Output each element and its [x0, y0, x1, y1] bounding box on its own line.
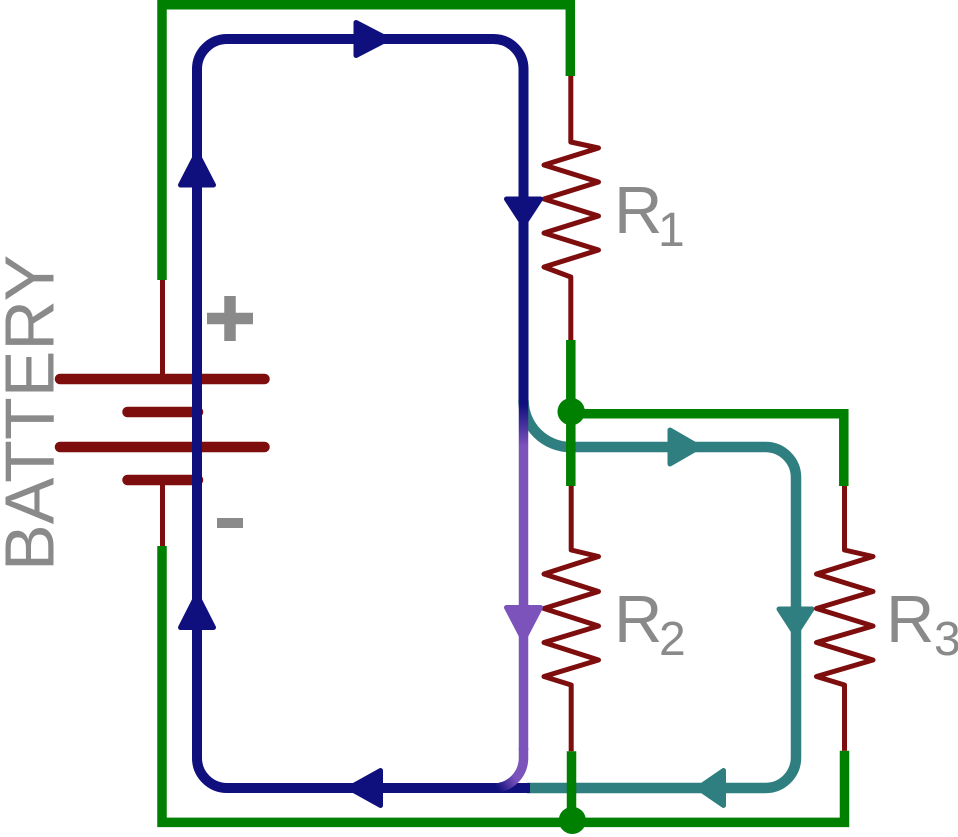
svg-text:R: R — [614, 582, 662, 657]
svg-text:1: 1 — [658, 204, 685, 257]
svg-text:2: 2 — [659, 613, 686, 666]
svg-text:R: R — [614, 173, 662, 248]
svg-text:3: 3 — [934, 613, 958, 666]
svg-text:BATTERY: BATTERY — [0, 255, 69, 571]
svg-text:R: R — [886, 582, 934, 657]
